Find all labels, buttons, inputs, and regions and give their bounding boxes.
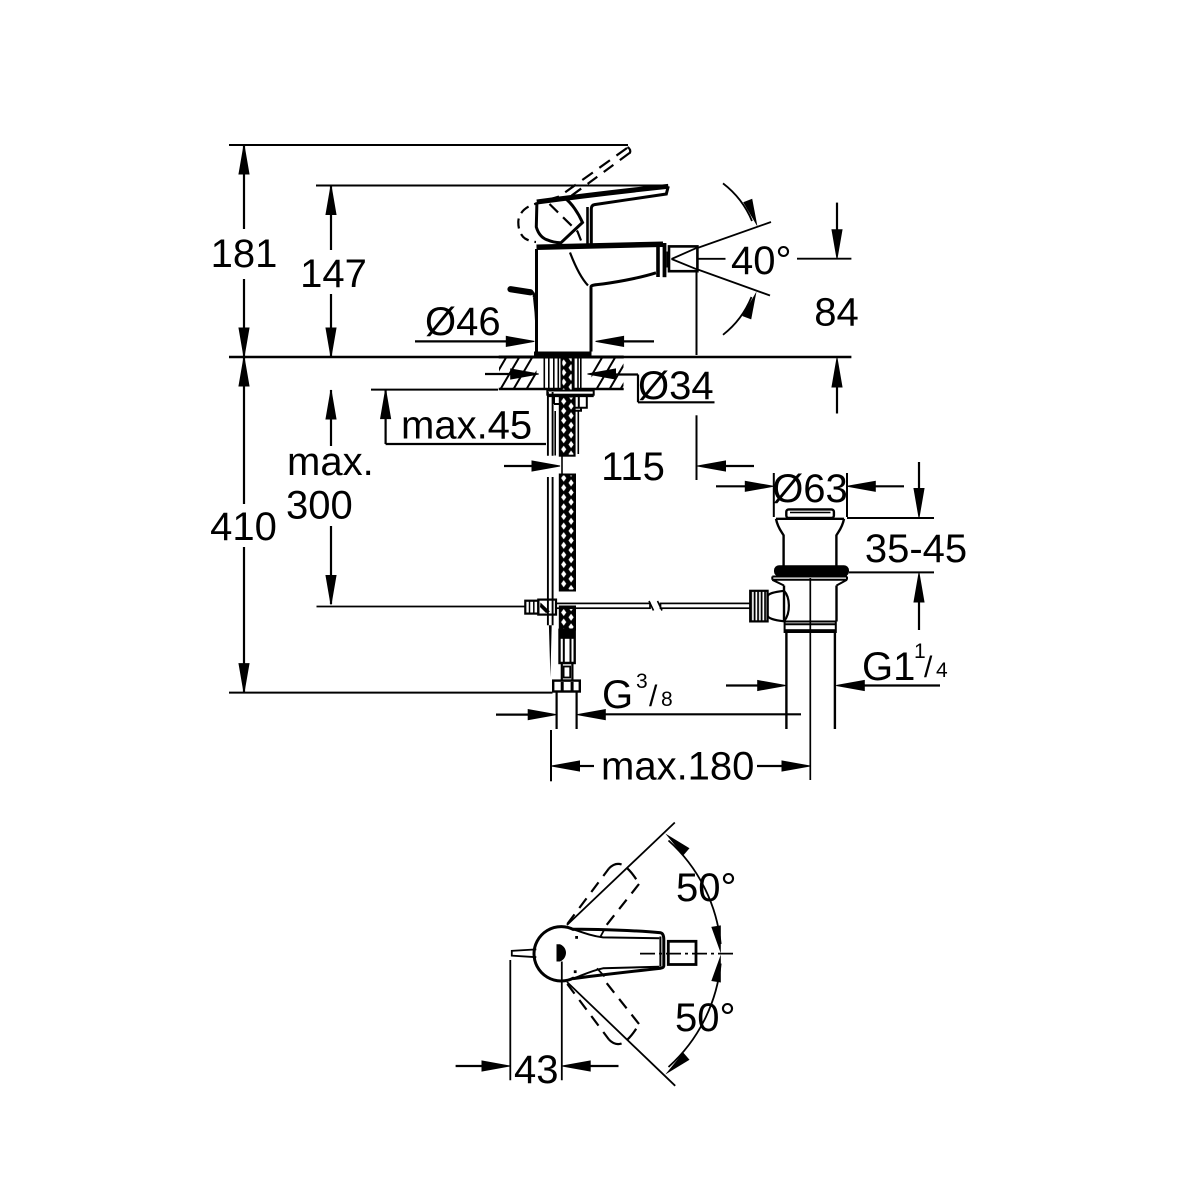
drain knurled knob (750, 591, 767, 622)
dimension max.180 horizontal (552, 761, 580, 771)
svg-text:181: 181 (211, 232, 278, 276)
extension line top of 147 (316, 185, 668, 187)
handle neck left edge (586, 207, 589, 244)
extension line bottom of 410 (229, 692, 553, 694)
faucet body pedestal and spout outline (537, 249, 592, 352)
lever clevis block (538, 600, 556, 615)
dimension Ø34 arrows (485, 373, 513, 375)
svg-text:G: G (602, 673, 633, 717)
svg-text:50°: 50° (676, 866, 737, 910)
faucet base plinth (534, 352, 592, 358)
mounting shank threaded (in hole) (544, 358, 581, 389)
handle dome outline (536, 199, 582, 243)
extension line max.180 left (550, 730, 552, 781)
mounting nut (554, 397, 587, 411)
50 degree lower arc (669, 964, 721, 1068)
extension line top of 181 (229, 144, 628, 146)
43 dimension arrows (456, 1065, 484, 1067)
hose G3/8 tube (557, 692, 577, 730)
dimension 84 vertical (836, 203, 838, 232)
counter slab bottom line (499, 388, 624, 391)
counter slab top thick segment (499, 356, 624, 359)
svg-text:84: 84 (814, 290, 859, 334)
svg-text:40°: 40° (731, 239, 792, 283)
top view body end inner line (659, 937, 661, 967)
43 dimension extension left (pin) (509, 960, 511, 1080)
dimension G1 1/4 arrows (726, 684, 758, 686)
top view centerline (640, 953, 737, 955)
counter top surface line (229, 356, 851, 358)
raised handle dashed dome outline (518, 197, 559, 243)
svg-text:4: 4 (936, 659, 948, 682)
lever rod right segment B (661, 603, 752, 608)
svg-text:300: 300 (286, 484, 353, 528)
aerator nub (666, 252, 669, 268)
svg-text:max.45: max.45 (401, 404, 532, 448)
handle lever tip and bottom edge (591, 186, 668, 243)
horizontal pop-up lever rod left (317, 606, 526, 608)
drain plug cap (786, 509, 834, 518)
supply hose sheath upper edges (555, 411, 578, 456)
spray cone square (669, 246, 697, 271)
drain o-ring (774, 565, 849, 576)
40 degree upper arc (723, 183, 752, 221)
extension line spout tip (115 right reference) (696, 271, 698, 355)
drain bottom ring (785, 622, 836, 634)
lever rod break marks (649, 601, 662, 611)
40 degree upper angle line (697, 222, 771, 248)
svg-text:8: 8 (661, 688, 673, 711)
supply hose braid middle segment (560, 475, 575, 591)
top view dark D detail (557, 944, 567, 961)
shank crosshatch in counter hole (561, 358, 572, 391)
svg-text:Ø46: Ø46 (425, 300, 501, 344)
top view body outline (573, 929, 664, 978)
svg-text:G1: G1 (862, 645, 915, 689)
top view dots (575, 936, 578, 939)
raised handle dashed tip (628, 147, 631, 154)
drain side port cone (768, 591, 789, 622)
40 degree center dash left (699, 258, 726, 260)
supply hose braid lower segment (560, 607, 575, 630)
Ø63 extension lines (773, 473, 775, 517)
faucet body cap thick edge (537, 244, 664, 247)
svg-text:Ø34: Ø34 (638, 364, 714, 408)
svg-text:147: 147 (300, 252, 367, 296)
svg-text:max.180: max.180 (601, 745, 754, 789)
drain collar (772, 577, 847, 586)
svg-text:410: 410 (210, 505, 277, 549)
lever clevis knurled nut (525, 601, 538, 614)
40 degree lower arc (723, 297, 752, 335)
svg-text:43: 43 (514, 1048, 559, 1092)
top view body inner bottom line (575, 967, 660, 979)
dimension 181 vertical line (243, 145, 245, 229)
mounting washer under counter (547, 391, 593, 395)
40 degree center dash right (84 reference tick) (797, 258, 851, 260)
drain centerline (809, 578, 811, 700)
supply hose braid upper segment (560, 397, 575, 456)
svg-text:35-45: 35-45 (865, 527, 967, 571)
50 degree upper reference line (567, 823, 675, 926)
drain valve body (784, 586, 837, 622)
faucet body interior curve (570, 253, 588, 286)
svg-text:/: / (924, 651, 933, 684)
counter hatching right (583, 356, 640, 390)
svg-text:3: 3 (636, 670, 648, 693)
svg-text:50°: 50° (675, 996, 736, 1040)
top view body inner top line (575, 930, 660, 939)
pop-up vertical rod (548, 392, 553, 625)
50 degree upper dashed handle band (567, 868, 609, 924)
dimension Ø63 arrows (716, 485, 747, 487)
35-45 extension lines (847, 517, 934, 519)
hose fitting waist (562, 663, 573, 681)
drain tailpipe (786, 633, 835, 729)
hose end nut (553, 681, 580, 692)
top view spout stub (668, 941, 696, 964)
drain flange (776, 519, 844, 566)
spout tip face plates (656, 244, 660, 278)
50 degree upper arc (669, 841, 721, 945)
dimension Ø46 horizontal (415, 340, 508, 342)
50 degree lower dashed handle band (567, 984, 609, 1040)
supply hose thin link in break (561, 456, 563, 475)
hose end fitting block (560, 630, 575, 663)
dimension 115 horizontal (504, 465, 535, 467)
svg-text:max.: max. (287, 440, 374, 484)
pop-up rod needle tip (549, 625, 552, 677)
50 degree lower reference line (567, 982, 675, 1086)
raised handle dashed inner edge (550, 204, 582, 241)
43 dimension extension right (knob center) (561, 962, 563, 1081)
top view shoulder tick top (600, 929, 605, 937)
spray cone lines (672, 248, 698, 270)
svg-text:115: 115 (601, 445, 665, 489)
top view knob circle (534, 927, 574, 981)
handle lever grip top edge (537, 186, 669, 202)
top view shoulder tick bottom (597, 968, 605, 976)
counter hatching left (487, 356, 546, 390)
extension line counter underside (max.45 reference) (371, 389, 498, 391)
top view pin (512, 949, 537, 957)
raised handle dashed band lower edge (567, 153, 630, 199)
svg-text:/: / (649, 680, 658, 713)
Ø34 label leader box (637, 375, 639, 403)
dimension 147 vertical line (330, 186, 332, 251)
dimension 410 vertical line (243, 357, 245, 504)
svg-text:Ø63: Ø63 (772, 467, 848, 511)
pop-up pull rod knob (511, 289, 531, 292)
drain centerline extension below (809, 700, 811, 780)
lever rod right segment A (556, 603, 650, 608)
40 degree lower angle line (697, 269, 770, 295)
raised handle dashed band upper edge (560, 148, 627, 196)
dimension G3/8 arrows (496, 713, 529, 715)
dimension max.45 arrow and shelf (385, 390, 387, 444)
dimension 35-45 vertical (918, 462, 920, 490)
dimension max.300 vertical line (330, 390, 332, 446)
